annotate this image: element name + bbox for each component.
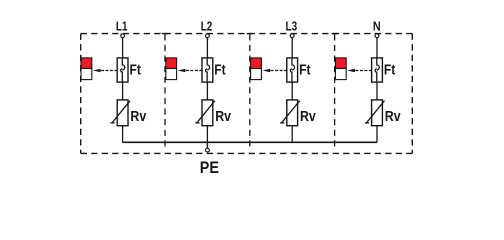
label L3 xyxy=(286,19,298,34)
label Ft (L3) xyxy=(299,63,310,79)
svg-text:L1: L1 xyxy=(116,19,128,34)
wire Ft to Rv (L3) xyxy=(291,82,293,100)
wire Ft to Rv (L2) xyxy=(206,82,208,100)
dashed arrow Ft to indicator (L1) xyxy=(93,69,117,72)
svg-text:Ft: Ft xyxy=(130,63,141,79)
svg-text:Rv: Rv xyxy=(300,109,316,125)
internal dashed separator 2 xyxy=(249,34,251,147)
wire Rv to PE bus (L2) xyxy=(206,126,208,143)
wire Rv to PE bus (L1) xyxy=(122,126,124,143)
svg-text:Rv: Rv xyxy=(130,109,146,125)
wire L3 terminal to Ft xyxy=(291,37,293,59)
dashed arrow Ft to indicator (N) xyxy=(347,69,371,72)
disconnector Ft (L3) xyxy=(287,58,298,82)
terminal L1 xyxy=(121,34,125,38)
terminal L2 xyxy=(206,34,210,38)
status indicator (L1) xyxy=(81,58,92,80)
svg-text:Ft: Ft xyxy=(299,63,310,79)
wire L1 terminal to Ft xyxy=(122,37,124,59)
status indicator (L3) xyxy=(251,58,262,80)
svg-text:Rv: Rv xyxy=(385,109,401,125)
label Rv (L1) xyxy=(130,109,146,125)
enclosure dashed border xyxy=(81,34,413,154)
wire L2 terminal to Ft xyxy=(206,37,208,59)
status indicator (L2) xyxy=(166,58,177,80)
wire PE bus to PE terminal xyxy=(206,142,208,149)
svg-text:L3: L3 xyxy=(286,19,298,34)
svg-text:Ft: Ft xyxy=(384,63,395,79)
varistor Rv (N) xyxy=(365,100,385,126)
terminal PE xyxy=(206,148,210,152)
varistor Rv (L1) xyxy=(111,100,131,126)
varistor Rv (L2) xyxy=(195,100,215,126)
wire N terminal to Ft xyxy=(376,37,378,59)
svg-text:Rv: Rv xyxy=(215,109,231,125)
terminal L3 xyxy=(290,34,294,38)
svg-text:N: N xyxy=(373,19,381,34)
label Rv (L2) xyxy=(215,109,231,125)
svg-text:PE: PE xyxy=(200,158,219,177)
label PE xyxy=(200,158,219,177)
label Ft (L2) xyxy=(214,63,225,79)
disconnector Ft (L2) xyxy=(202,58,213,82)
terminal N xyxy=(375,34,379,38)
label L1 xyxy=(116,19,128,34)
wire Ft to Rv (L1) xyxy=(122,82,124,100)
disconnector Ft (N) xyxy=(372,58,383,82)
label Ft (L1) xyxy=(130,63,141,79)
dashed arrow Ft to indicator (L3) xyxy=(263,69,287,72)
svg-text:Ft: Ft xyxy=(214,63,225,79)
wire Ft to Rv (N) xyxy=(376,82,378,100)
svg-text:L2: L2 xyxy=(201,19,213,34)
label Ft (N) xyxy=(384,63,395,79)
internal dashed separator 3 xyxy=(334,34,336,147)
status indicator (N) xyxy=(335,58,346,80)
dashed arrow Ft to indicator (L2) xyxy=(178,69,202,72)
label Rv (L3) xyxy=(300,109,316,125)
disconnector Ft (L1) xyxy=(117,58,128,82)
internal dashed separator 1 xyxy=(164,34,166,147)
label N xyxy=(373,19,381,34)
label L2 xyxy=(201,19,213,34)
PE bus wire xyxy=(123,141,377,143)
wire Rv to PE bus (N) xyxy=(376,126,378,143)
varistor Rv (L3) xyxy=(280,100,300,126)
label Rv (N) xyxy=(385,109,401,125)
wire Rv to PE bus (L3) xyxy=(291,126,293,143)
